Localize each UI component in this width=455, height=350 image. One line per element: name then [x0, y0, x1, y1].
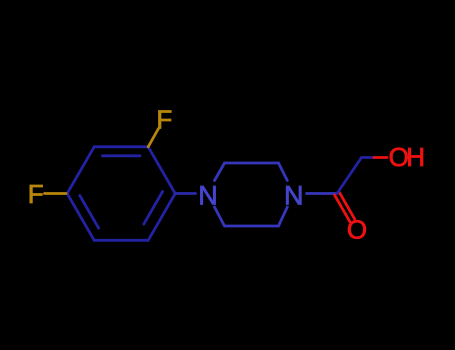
piperazine bond top C-C — [225, 162, 279, 165]
carbonyl C=O line 2 — [335, 195, 350, 222]
svg-text:F: F — [28, 179, 44, 209]
bond C2-F top — [148, 129, 158, 147]
benzene ring bond C4-C5 — [67, 194, 94, 241]
bond C carbonyl-CH2 — [337, 158, 362, 194]
benzene ring bond C1-C2 — [148, 147, 175, 194]
svg-text:H: H — [406, 142, 425, 172]
piperazine bond N1-C(top-left) — [215, 163, 225, 181]
benzene inner double C4-C5 — [80, 196, 99, 229]
piperazine bond C(bottom-right)-N2 — [279, 207, 288, 226]
piperazine bond bottom C-C — [225, 225, 279, 228]
bond CH2-OH oxygen half — [374, 156, 387, 159]
benzene inner double C2-C3 — [102, 154, 140, 157]
svg-text:N: N — [198, 181, 218, 211]
benzene inner double C6-C1 — [144, 192, 163, 225]
benzene ring bond C6-C1 — [148, 194, 175, 241]
piperazine bond C(top-right)-N2 — [279, 163, 288, 181]
piperazine bond N1-C(bottom-left) — [215, 207, 225, 226]
bond CH2-OH carbon half — [362, 156, 375, 159]
benzene ring bond C2-C3 top — [94, 145, 148, 148]
svg-text:F: F — [156, 105, 172, 135]
svg-text:N: N — [284, 181, 304, 211]
bond N2-C carbonyl — [307, 192, 338, 195]
svg-text:O: O — [347, 215, 367, 245]
benzene ring bond C3-C4 — [67, 147, 94, 194]
benzene ring bond C5-C6 bottom — [94, 239, 148, 242]
bond C4-F left — [45, 192, 67, 195]
bond C1-N1 — [175, 192, 195, 195]
carbonyl C=O line 1 — [339, 192, 354, 219]
